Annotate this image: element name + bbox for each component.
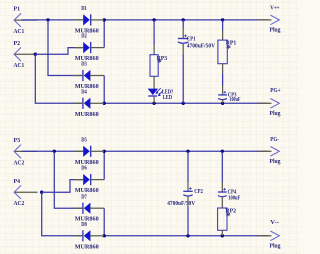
junction V-- rail at RP2	[221, 234, 224, 237]
resistor RP1	[218, 39, 236, 63]
connector P3 (net AC2)	[14, 137, 38, 166]
svg-text:LED: LED	[163, 94, 173, 101]
LED LED7	[148, 88, 174, 101]
wire node to D4 cathode	[35, 54, 83, 103]
junction V++ rail at CP1	[182, 18, 185, 21]
diode D6 MUR860	[74, 165, 104, 194]
wire CP4 to RP2	[221, 197, 223, 208]
svg-text:P1: P1	[14, 6, 21, 13]
svg-text:AC1: AC1	[14, 62, 25, 69]
junction node AC1-a	[46, 18, 49, 21]
diode D2 MUR860	[74, 33, 104, 62]
wire D7-D8 anodes	[103, 208, 105, 236]
wire CP1 stem top	[182, 20, 184, 39]
svg-text:AC1: AC1	[14, 28, 25, 35]
svg-text:100uF: 100uF	[228, 195, 240, 202]
wire RP3 stem	[153, 20, 155, 55]
wire P3 to D5 anode	[22, 150, 84, 152]
diode D7 MUR860	[73, 193, 104, 222]
svg-text:D2: D2	[81, 33, 87, 40]
svg-text:PG+: PG+	[270, 87, 281, 94]
wire node to D3 cathode	[48, 20, 83, 76]
junction PG+ rail at CP3	[221, 102, 224, 105]
junction V++ rail at RP1	[221, 18, 224, 21]
resistor RP2	[218, 207, 236, 230]
wire CP2 stem top	[187, 151, 189, 191]
wire P2 to D2 anode (step)	[35, 48, 83, 55]
svg-text:100uF: 100uF	[229, 96, 240, 103]
junction V++ rail at RP3	[152, 18, 155, 21]
svg-text:D3: D3	[81, 61, 87, 68]
svg-text:V++: V++	[270, 5, 279, 12]
wire RP1 to CP3	[222, 64, 224, 95]
svg-text:CP2: CP2	[194, 188, 203, 195]
wire D1-D2 cathodes	[103, 20, 105, 48]
svg-text:AC2: AC2	[14, 159, 25, 166]
junction PG- rail at CP2	[186, 150, 189, 153]
wire PG- rail	[104, 150, 268, 152]
wire PG+ rail	[104, 102, 268, 104]
capacitor CP3 100uF	[218, 91, 240, 103]
diode D3 MUR860	[73, 61, 104, 90]
capacitor CP4 100uF	[218, 188, 240, 202]
junction V++ rail at node	[103, 18, 106, 21]
svg-text:4700uF/50V: 4700uF/50V	[187, 42, 216, 49]
svg-text:4700uF/50V: 4700uF/50V	[167, 200, 195, 207]
diode D1 MUR860	[74, 5, 104, 34]
port V++	[257, 5, 281, 34]
connector P2 (net AC1)	[14, 40, 38, 69]
junction PG+ rail at node	[103, 102, 106, 105]
svg-text:D6: D6	[81, 165, 87, 172]
junction PG+ rail at CP1	[182, 102, 185, 105]
junction node AC2-a	[53, 150, 56, 153]
capacitor CP2 4700uF/50V	[167, 187, 203, 207]
wire LED to PG+ rail	[153, 96, 155, 103]
svg-text:D8: D8	[81, 221, 87, 228]
wire D5-D6 cathodes	[103, 151, 105, 179]
svg-text:*: *	[157, 59, 162, 69]
svg-text:Plug: Plug	[270, 158, 282, 165]
connector P1 (net AC1)	[14, 6, 38, 35]
svg-text:PG-: PG-	[270, 136, 279, 143]
wire V-- rail	[104, 235, 268, 237]
svg-text:*: *	[226, 44, 231, 54]
svg-text:*: *	[226, 212, 231, 222]
wire CP4 stem	[221, 151, 223, 192]
svg-text:Plug: Plug	[270, 27, 282, 34]
wire RP3 to LED	[153, 76, 155, 89]
svg-text:Plug: Plug	[270, 243, 282, 250]
svg-text:D7: D7	[81, 193, 87, 200]
diode D8 MUR860	[73, 221, 104, 250]
junction PG- rail at CP4	[221, 150, 224, 153]
svg-text:D5: D5	[81, 136, 87, 143]
diode D4 MUR860	[73, 88, 104, 117]
junction PG+ rail at LED	[152, 102, 155, 105]
wire CP3 to PG+ rail	[222, 100, 224, 104]
junction PG- rail at node	[103, 150, 106, 153]
diode D5 MUR860	[74, 136, 104, 165]
junction node AC2-b	[40, 191, 43, 194]
svg-text:V--: V--	[270, 219, 279, 226]
svg-text:MUR860: MUR860	[75, 243, 99, 250]
port V--	[257, 219, 281, 250]
svg-text:MUR860: MUR860	[75, 111, 99, 118]
wire node to D8 cathode	[42, 192, 83, 236]
svg-text:P4: P4	[14, 178, 21, 185]
junction node AC1-b	[34, 53, 37, 56]
wire CP1 stem bottom	[182, 44, 184, 104]
junction V-- rail at node	[103, 234, 106, 237]
wire P1 to D1 anode	[22, 19, 84, 21]
junction V-- rail at CP2	[186, 234, 189, 237]
svg-text:Plug: Plug	[270, 110, 282, 117]
svg-text:D1: D1	[81, 5, 87, 12]
wire D3-D4 anodes	[103, 76, 105, 104]
wire V++ rail	[104, 19, 268, 21]
connector P4 (net AC2)	[14, 178, 38, 207]
wire RP2 to V-- rail	[221, 230, 223, 236]
svg-text:D4: D4	[81, 88, 87, 95]
resistor RP3	[150, 55, 168, 77]
capacitor CP1 4700uF/50V	[178, 35, 215, 50]
wire node to D7 cathode	[54, 151, 83, 208]
port PG-	[257, 136, 281, 165]
wire CP2 stem bottom	[187, 197, 189, 236]
wire RP1 stem	[222, 20, 224, 40]
port PG+	[257, 87, 281, 117]
wire P4 to D6 anode (step)	[42, 180, 83, 193]
svg-text:P2: P2	[14, 40, 21, 47]
svg-text:P3: P3	[14, 137, 21, 144]
svg-text:AC2: AC2	[14, 200, 25, 207]
